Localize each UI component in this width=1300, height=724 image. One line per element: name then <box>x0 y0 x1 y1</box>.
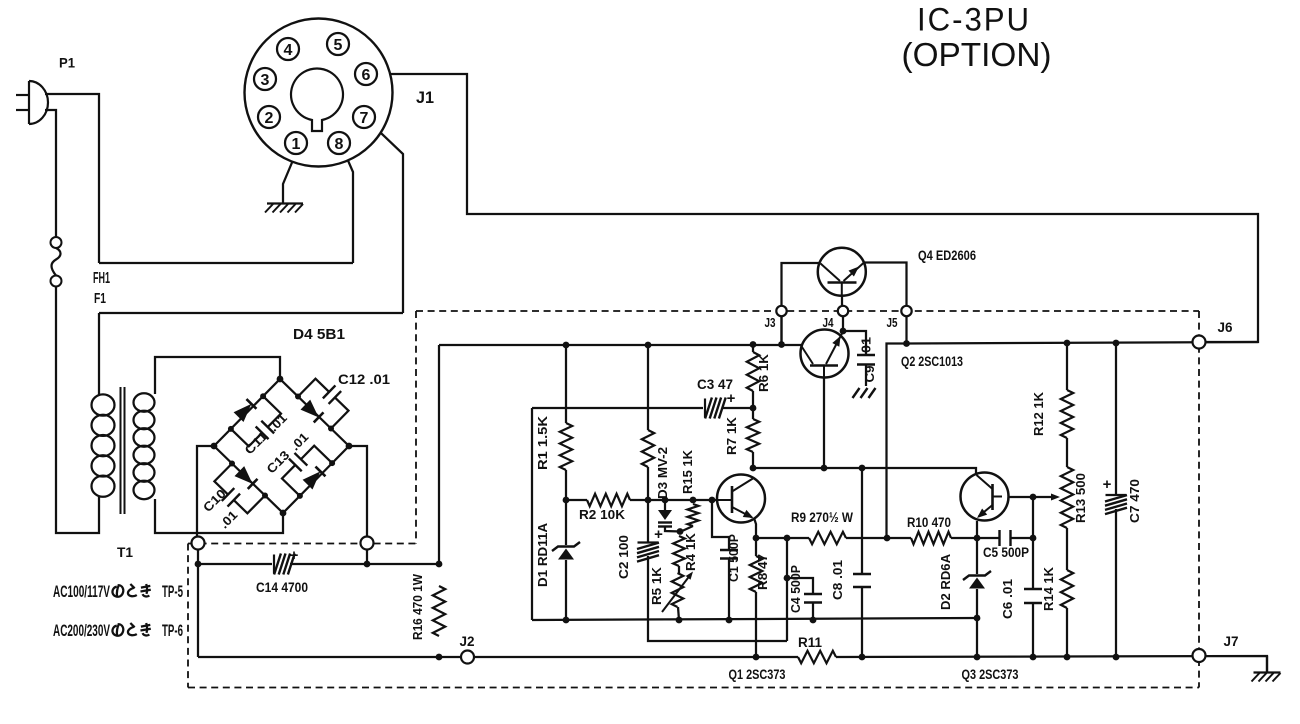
zener D2 RD6A <box>969 578 985 589</box>
wire C7 top stub <box>1115 343 1117 494</box>
zener D1 RD11A <box>558 549 574 560</box>
diode D4-a (top-left arm) <box>234 404 252 422</box>
wire bottom ground rail left <box>198 656 798 658</box>
wire R5 bottom stub <box>678 607 679 620</box>
socket pin 8 <box>328 132 350 154</box>
resistor R6 1K <box>747 352 759 391</box>
wire J4 riser <box>842 316 844 331</box>
wire R9 to R10 <box>846 537 911 539</box>
wire D3 top stub <box>664 500 666 510</box>
wire R8 top stub <box>755 538 757 556</box>
wire D1 bottom stub <box>565 560 567 620</box>
svg-text:J5: J5 <box>887 316 898 330</box>
socket pin 6 <box>355 63 377 85</box>
jack J5 <box>901 306 911 316</box>
ground at C9 <box>853 388 860 398</box>
resistor R11 <box>798 651 836 663</box>
diode D4-b (top-right arm) <box>301 400 319 418</box>
svg-text:J6: J6 <box>1218 320 1233 335</box>
transistor Q1 2SC373 <box>717 475 765 523</box>
wire rail riser from C14 line <box>438 345 440 564</box>
wire R4 bottom stub <box>678 566 680 573</box>
capacitor C12 (across top-right arm) <box>298 379 329 397</box>
resistor R13 500 variable <box>1061 467 1073 528</box>
capacitor C9 .01 <box>857 354 875 356</box>
resistor R14 1K <box>1061 570 1073 608</box>
wire C3 line right <box>722 407 753 409</box>
svg-text:R16 470 1W: R16 470 1W <box>410 573 425 640</box>
svg-text:J7: J7 <box>1224 634 1239 649</box>
svg-text:Q1 2SC373: Q1 2SC373 <box>729 666 786 682</box>
jack J2 <box>461 651 474 664</box>
wire J5 stub to emitter line <box>887 344 907 539</box>
transformer T1 secondary winding <box>134 393 155 411</box>
svg-text:2: 2 <box>265 110 274 127</box>
wire collector line to Q3 <box>753 468 976 478</box>
ground at J7 <box>1254 671 1281 673</box>
resistor R15 1K <box>688 504 699 526</box>
wire C2 top stub <box>647 500 649 542</box>
socket pin 4 <box>277 38 299 60</box>
wire R3 top stub <box>647 345 649 430</box>
wire J3 to Q4 collector <box>782 263 821 345</box>
dashed option-box border left <box>187 544 189 688</box>
svg-text:P1: P1 <box>59 55 75 71</box>
terminal TP-6 <box>361 537 374 550</box>
wire R6 R7 junction <box>752 345 754 353</box>
svg-text:D4 5B1: D4 5B1 <box>293 327 345 343</box>
socket pin 3 <box>254 68 276 90</box>
wire bridge left corner to terminal <box>197 446 214 537</box>
bridge D4 side bottom-left <box>214 446 283 513</box>
jack J7 <box>1193 649 1206 662</box>
wire Q2 base lead <box>823 366 825 468</box>
wire C5 right stub <box>1011 537 1033 539</box>
wire R8 bottom stub <box>755 592 757 657</box>
wire D1 top stub <box>565 500 567 545</box>
svg-text:F1: F1 <box>94 290 106 307</box>
wire C8 riser <box>861 468 863 574</box>
svg-text:+: + <box>727 390 736 407</box>
wire pin7 riser <box>372 125 403 314</box>
svg-text:T1: T1 <box>117 544 133 560</box>
wire base line Q1 <box>566 499 587 501</box>
transistor Q4 ED2606 <box>818 248 866 296</box>
wire C14 line right <box>290 563 439 565</box>
bridge D4 side top-left <box>214 379 280 446</box>
dashed option-box border left upper <box>415 311 417 544</box>
transformer T1 core <box>120 387 122 514</box>
svg-text:R13 500: R13 500 <box>1073 473 1088 523</box>
transistor Q3 2SC373 <box>961 473 1009 521</box>
svg-text:C12 .01: C12 .01 <box>338 371 390 387</box>
wire D2 top stub <box>976 538 978 574</box>
svg-text:C3 47: C3 47 <box>697 377 733 392</box>
svg-text:C14 4700: C14 4700 <box>256 580 308 595</box>
resistor R7 1K <box>747 419 759 452</box>
capacitor C13 (across bottom-right arm) <box>282 465 300 496</box>
wire unregulated top rail <box>439 344 805 346</box>
svg-text:J1: J1 <box>416 88 434 107</box>
svg-text:7: 7 <box>360 110 369 127</box>
svg-text:R6 1K: R6 1K <box>756 353 771 392</box>
wire C9 branch <box>843 331 866 355</box>
varactor D3 MV-2 <box>658 510 672 520</box>
svg-text:R9 270½ W: R9 270½ W <box>791 510 853 525</box>
wire base line Q1 right part <box>630 499 731 501</box>
svg-text:C7 470: C7 470 <box>1127 479 1142 523</box>
svg-text:1: 1 <box>292 136 301 153</box>
capacitor C6 .01 <box>1024 588 1042 590</box>
dashed option-box border right <box>1198 311 1200 688</box>
svg-text:FH1: FH1 <box>93 270 110 287</box>
terminal TP-5 <box>192 537 205 550</box>
dashed option-box border jog <box>188 543 416 545</box>
capacitor C2 100 (electrolytic) <box>638 541 659 543</box>
wire emitter node vertical <box>786 538 788 641</box>
socket pin 7 <box>353 106 375 128</box>
wire R1 bottom stub <box>565 470 567 500</box>
wire R15 bend <box>681 526 693 532</box>
dashed option-box border bottom <box>188 687 1199 689</box>
diode D4-d (bottom-right arm) <box>303 471 321 489</box>
svg-text:R2 10K: R2 10K <box>579 507 626 522</box>
wiper arrow into R13 <box>1051 494 1060 501</box>
wire pin6 to J6 long run <box>377 74 1258 342</box>
svg-text:R10 470: R10 470 <box>907 515 951 530</box>
wire regulated output rail <box>907 342 1259 344</box>
svg-text:8: 8 <box>335 136 344 153</box>
wire feedback box left vertical <box>531 408 533 620</box>
svg-text:C8 .01: C8 .01 <box>830 560 845 600</box>
bridge D4 side bottom-right <box>283 446 349 513</box>
svg-text:C2 100: C2 100 <box>616 535 631 579</box>
wire C5 left stub <box>977 537 999 539</box>
resistor R2 10K <box>587 494 630 506</box>
resistor R4 1K <box>673 536 685 566</box>
svg-text:(OPTION): (OPTION) <box>902 36 1052 73</box>
wire Q4 base to J4 <box>841 294 843 306</box>
svg-text:R8 47: R8 47 <box>755 554 770 590</box>
wire pin1 to ground <box>283 153 296 203</box>
resistor R9 270 1/2W <box>809 532 846 544</box>
wire C1 bottom stub <box>728 559 730 621</box>
wire Q4 emitter to J5 <box>864 263 907 317</box>
wire bottom ground rail right <box>836 656 1267 672</box>
ground at socket pin 1 <box>267 202 303 204</box>
svg-text:R1 1.5K: R1 1.5K <box>535 415 550 470</box>
svg-text:+: + <box>1103 476 1112 493</box>
svg-text:C6 .01: C6 .01 <box>1000 579 1015 619</box>
wire R10 to Q3 emitter <box>951 537 977 539</box>
junction dots <box>195 561 202 568</box>
svg-text:C1 500P: C1 500P <box>726 534 741 582</box>
wire T1 primary top lead <box>98 313 100 395</box>
transformer T1 primary winding <box>92 394 115 415</box>
wire C14 line left <box>198 563 272 565</box>
resistor R3 (unlabeled) <box>642 430 654 467</box>
capacitor C14 4700 (electrolytic) <box>273 555 275 574</box>
capacitor C10 (across bottom-left arm) <box>214 464 232 495</box>
socket pin 1 <box>285 132 307 154</box>
transistor Q2 2SC1013 <box>801 330 849 378</box>
svg-text:J4: J4 <box>823 316 834 330</box>
dashed option-box border top <box>416 310 1199 312</box>
wire Q1 base dot to C1 <box>712 500 729 550</box>
socket pin 2 <box>258 106 280 128</box>
svg-text:3: 3 <box>261 72 270 89</box>
wire emitter line R9 <box>756 537 809 539</box>
wire C9 to ground <box>865 365 867 387</box>
wire C5 riser to base <box>1032 497 1034 538</box>
svg-text:R7 1K: R7 1K <box>724 416 739 455</box>
capacitor C4 500P <box>804 593 822 595</box>
plug P1 <box>28 81 30 124</box>
wire terminal TP-6 stub <box>366 550 368 565</box>
wire C6 top stub <box>1032 538 1034 589</box>
svg-text:C4 500P: C4 500P <box>788 565 803 613</box>
wire P1 to fuse <box>45 110 56 237</box>
svg-text:IC-3PU: IC-3PU <box>917 2 1031 38</box>
svg-text:TP-5: TP-5 <box>162 582 183 601</box>
wire C8 bottom stub <box>861 587 863 657</box>
node bridge cap taps <box>228 426 234 432</box>
svg-text:Q4 ED2606: Q4 ED2606 <box>918 247 976 263</box>
svg-text:R11: R11 <box>798 635 822 650</box>
svg-text:D1 RD11A: D1 RD11A <box>535 522 550 587</box>
svg-text:TP-6: TP-6 <box>162 621 183 640</box>
resistor R10 470 <box>911 532 951 544</box>
jack J4 <box>838 306 848 316</box>
svg-text:J3: J3 <box>765 316 776 330</box>
capacitor C8 .01 <box>853 573 871 575</box>
svg-text:R5 1K: R5 1K <box>649 566 664 605</box>
wire Q3 base to wiper <box>1001 496 1055 498</box>
wire C2 bottom run <box>648 556 787 641</box>
resistor R16 470 1W <box>433 586 445 636</box>
jack J6 <box>1193 336 1206 349</box>
svg-text:C9: C9 <box>862 366 877 383</box>
svg-text:6: 6 <box>362 67 371 84</box>
resistor R1 1.5K <box>560 423 572 470</box>
node bridge corners <box>211 443 218 450</box>
capacitor C5 500P <box>998 530 1000 546</box>
resistor R5 1K variable <box>672 573 684 607</box>
resistor R8 47 <box>750 556 762 592</box>
wire terminal TP-5 stub <box>197 550 199 565</box>
svg-text:R12 1K: R12 1K <box>1031 391 1046 436</box>
svg-text:J2: J2 <box>460 634 475 649</box>
wire C7 bottom stub <box>1115 509 1117 657</box>
svg-text:AC200/230V: AC200/230V <box>53 621 110 640</box>
wire R12 to R13 <box>1066 438 1068 467</box>
capacitor C7 470 (electrolytic) <box>1106 494 1127 496</box>
capacitor C3 47 (electrolytic) <box>704 399 706 418</box>
bridge D4 side top-right <box>280 379 349 446</box>
wire C6 bottom stub <box>1032 603 1034 657</box>
svg-text:5: 5 <box>334 37 343 54</box>
svg-text:D3 MV-2: D3 MV-2 <box>655 447 670 499</box>
fuse F1 <box>51 237 62 248</box>
wire C4 branch <box>787 578 813 594</box>
svg-text:R4 1K: R4 1K <box>683 532 698 571</box>
wire fuse to T1 primary bottom <box>56 287 99 534</box>
wire F1 line to pin7 <box>99 312 403 314</box>
wire C4 bottom stub <box>812 603 814 621</box>
jack J3 <box>776 306 786 316</box>
svg-text:D2 RD6A: D2 RD6A <box>938 553 953 610</box>
svg-text:.01: .01 <box>859 337 874 357</box>
wire R7 stubs <box>752 391 754 419</box>
wire bridge right corner to terminal <box>349 446 367 537</box>
svg-text:+: + <box>290 547 299 564</box>
wire R3 bottom stub <box>647 467 649 500</box>
svg-text:Q2 2SC1013: Q2 2SC1013 <box>901 353 963 369</box>
tube socket J1 body <box>245 19 393 167</box>
wire Q3 emitter lead <box>976 521 978 538</box>
resistor R12 1K <box>1061 390 1073 438</box>
wire C3 line left <box>532 407 703 409</box>
svg-text:AC100/117V: AC100/117V <box>53 582 110 601</box>
wire R14 bottom stub <box>1066 608 1068 657</box>
wire R13 to R14 <box>1066 528 1068 570</box>
wire D2 bottom stub <box>976 589 978 657</box>
svg-text:4: 4 <box>284 42 293 59</box>
diode D4-c (bottom-left arm) <box>235 466 253 484</box>
capacitor C1 500P <box>720 549 738 551</box>
wire FH1 line to pin8 <box>99 262 353 264</box>
wire P1 to FH1 line <box>45 94 99 263</box>
capacitor C11 (across top-left arm) <box>231 429 262 446</box>
wire T1 secondary bottom to bridge <box>155 499 283 533</box>
wire J3 riser <box>780 316 782 345</box>
wire T1 secondary top to bridge <box>155 357 280 394</box>
wire J7 ground drop <box>1266 656 1268 672</box>
svg-text:+: + <box>654 526 663 543</box>
wire J5 riser <box>905 316 907 344</box>
wire D3 bottom bend <box>665 526 681 532</box>
svg-text:R15 1K: R15 1K <box>680 449 695 494</box>
svg-text:Q3 2SC373: Q3 2SC373 <box>962 666 1019 682</box>
wire R12 top stub <box>1066 343 1068 390</box>
wire R1 top stub <box>565 345 567 423</box>
wire left drop to bottom rail <box>197 564 199 657</box>
wire Q1 collector riser <box>752 452 754 468</box>
svg-text:C5 500P: C5 500P <box>983 545 1029 560</box>
wire Q1 emitter lead <box>754 518 756 538</box>
wire pin8 riser <box>345 153 354 264</box>
svg-text:R14 1K: R14 1K <box>1041 566 1056 611</box>
socket pin 5 <box>327 33 349 55</box>
wire bias bus line <box>532 618 977 620</box>
